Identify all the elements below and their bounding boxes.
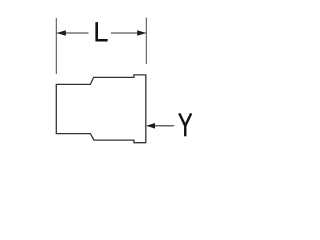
dimension line L right segment (111, 32, 146, 34)
dimension line L left segment (57, 32, 89, 34)
arrowhead left (points left) (57, 30, 66, 36)
leader line Y (147, 125, 174, 127)
label Y (179, 113, 191, 136)
arrowhead right (points right) (137, 30, 146, 36)
fitting body outline (56, 75, 146, 143)
extension line right (L dimension) (145, 18, 147, 65)
label L (95, 22, 107, 41)
extension line left (L dimension) (55, 18, 57, 74)
arrowhead Y (points left at fitting edge) (147, 123, 155, 129)
